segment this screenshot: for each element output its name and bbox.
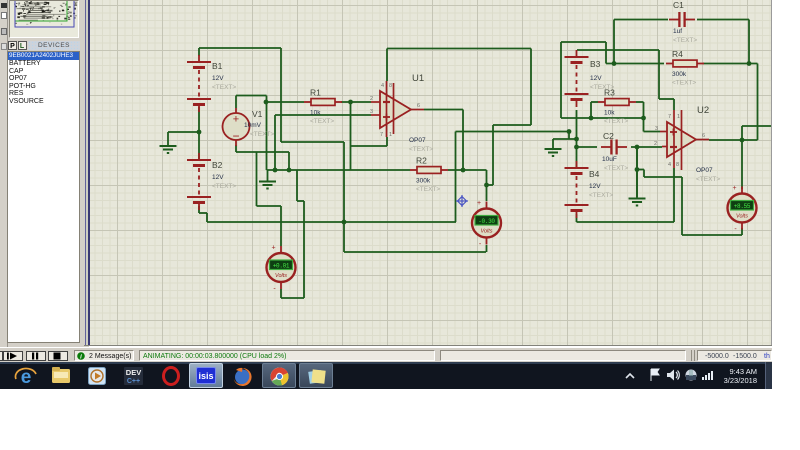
Firefox icon [232, 366, 253, 387]
junction [589, 116, 594, 121]
wire [682, 234, 742, 236]
U2 power rails [660, 110, 709, 170]
svg-text:R2: R2 [416, 156, 427, 166]
U1 pin numbers [370, 83, 420, 138]
schematic canvas grid [89, 0, 771, 345]
svg-text:1uf: 1uf [673, 28, 682, 35]
left toolbar strip [0, 0, 8, 347]
preview green sheet border [15, 0, 67, 21]
svg-text:<TEXT>: <TEXT> [589, 192, 613, 199]
resistor R2 [410, 167, 448, 174]
svg-text:<TEXT>: <TEXT> [250, 131, 274, 138]
resistor R3 [598, 99, 636, 106]
wire [236, 95, 267, 97]
svg-text:<TEXT>: <TEXT> [672, 80, 696, 87]
coordinates [697, 350, 772, 361]
junction [641, 116, 646, 121]
wire to U2 pin3 [644, 131, 661, 133]
junction [612, 61, 617, 66]
junction [635, 145, 640, 150]
svg-text:+: + [477, 200, 481, 207]
svg-text:Volts: Volts [736, 214, 748, 220]
battery B1 [187, 55, 211, 112]
wire [280, 48, 282, 142]
svg-text:4: 4 [668, 162, 671, 168]
svg-text:7: 7 [668, 114, 671, 120]
svg-text:B2: B2 [212, 160, 223, 170]
media player icon [88, 367, 106, 385]
voltmeter M1 [267, 245, 296, 293]
svg-text:Volts: Volts [480, 229, 492, 235]
wire [288, 152, 290, 170]
wire [303, 201, 305, 298]
svg-text:3: 3 [370, 109, 373, 115]
wire cross vertical [455, 132, 457, 223]
svg-text:10k: 10k [310, 110, 321, 117]
junction [348, 100, 353, 105]
wire [644, 176, 682, 178]
junction [461, 168, 466, 173]
folder icon [51, 366, 72, 385]
wire U1 pin3 line [275, 114, 371, 116]
wire [386, 137, 388, 146]
junction [484, 183, 489, 188]
voltage source V1 [223, 108, 250, 146]
wire C1 left [614, 19, 668, 21]
notes button [299, 363, 333, 388]
ISIS app button (active) [189, 363, 223, 388]
svg-text:R4: R4 [672, 49, 683, 59]
svg-text:12V: 12V [212, 174, 224, 181]
svg-text:+: + [233, 114, 239, 126]
junction [342, 220, 347, 225]
junction [574, 137, 579, 142]
svg-text:4: 4 [381, 83, 384, 89]
wire [591, 101, 598, 103]
U1 power rails [371, 81, 424, 137]
svg-text:<TEXT>: <TEXT> [673, 37, 697, 44]
wire B4- rail [577, 221, 675, 223]
svg-text:12V: 12V [589, 183, 601, 190]
battery B4 [565, 161, 589, 218]
wire [296, 170, 298, 201]
wire [487, 184, 494, 186]
wire U2 out [709, 139, 758, 141]
svg-text:+0.01: +0.01 [273, 263, 290, 270]
schematic drawing [88, 0, 771, 346]
svg-text:3: 3 [655, 126, 658, 132]
svg-text:<TEXT>: <TEXT> [604, 165, 628, 172]
svg-text:<TEXT>: <TEXT> [416, 186, 440, 193]
junction [740, 138, 745, 143]
wire to meter2 minus [344, 251, 486, 253]
svg-text:U2: U2 [697, 105, 709, 116]
svg-text:8: 8 [676, 162, 679, 168]
wire B1+ rail [199, 47, 281, 49]
wire B2 bottom [198, 206, 200, 213]
step button [3, 351, 23, 361]
IE icon [14, 366, 38, 386]
wire [741, 126, 743, 140]
status bar [0, 347, 772, 362]
svg-text:B1: B1 [212, 61, 223, 71]
ground GND3 stage2 left [545, 139, 562, 156]
wire to R1 [267, 101, 305, 103]
system tray [624, 370, 636, 382]
wire V1+ up [235, 96, 237, 109]
wire feedback down [757, 64, 759, 141]
wire R3 bottom rail [561, 117, 644, 119]
wire B1 top [198, 48, 200, 56]
svg-text:10mV: 10mV [244, 122, 262, 129]
svg-text:+: + [732, 185, 736, 192]
wire C1 left drop [613, 20, 615, 64]
wire [568, 132, 570, 140]
svg-text:U1: U1 [412, 73, 424, 84]
wire [206, 213, 208, 222]
wire [343, 142, 345, 252]
ground GND2 below V1 [259, 170, 276, 189]
ground GND1 [160, 132, 177, 153]
svg-text:+8.55: +8.55 [734, 203, 751, 210]
wire R4 right [703, 63, 758, 65]
svg-text:Volts: Volts [275, 273, 287, 279]
wire meter1 minus [280, 289, 282, 298]
wire C2 to pin2 [631, 146, 662, 148]
wire R2 right [448, 169, 487, 171]
svg-text:300k: 300k [416, 178, 431, 185]
wire to U1 Vminus rail [351, 145, 388, 147]
svg-text:<TEXT>: <TEXT> [696, 176, 720, 183]
taskbar [0, 362, 772, 389]
wire [297, 200, 304, 202]
wire [493, 124, 531, 126]
origin marker [456, 195, 468, 207]
svg-text:−: − [232, 129, 239, 143]
wire feedback down [350, 102, 352, 170]
svg-text:1: 1 [389, 132, 392, 138]
svg-text:C2: C2 [603, 131, 614, 141]
svg-text:12V: 12V [590, 75, 602, 82]
preview schematic thumbnail [34, 3, 36, 6]
svg-text:-: - [734, 226, 737, 233]
wire R3 left drop [590, 102, 592, 118]
wire U1 out [424, 109, 463, 111]
wire U2 V- drop [673, 168, 675, 222]
svg-text:2: 2 [654, 141, 657, 147]
wire V1- down [235, 145, 237, 152]
svg-text:OP07: OP07 [696, 167, 713, 174]
wire B3+ rail [577, 49, 659, 51]
svg-text:R1: R1 [310, 88, 321, 98]
play button (cut) [0, 351, 3, 361]
svg-text:12V: 12V [212, 75, 224, 82]
junction [567, 129, 572, 134]
capacitor C1 symbol [669, 12, 695, 27]
svg-text:<TEXT>: <TEXT> [409, 146, 433, 153]
wire to ground [636, 147, 638, 197]
svg-text:C++: C++ [127, 378, 140, 385]
svg-text:2: 2 [370, 96, 373, 102]
wire [553, 138, 577, 140]
pause button [26, 351, 46, 361]
wire left box [560, 42, 562, 118]
wire [748, 20, 750, 64]
wire C1 right [697, 19, 749, 21]
battery B3 [565, 50, 589, 107]
svg-text:<TEXT>: <TEXT> [310, 118, 334, 125]
junction [747, 61, 752, 66]
ground GND4 stage2 mid [629, 147, 646, 206]
wire [257, 205, 282, 207]
svg-text:1: 1 [677, 114, 680, 120]
wire B4 bottom [576, 214, 578, 222]
svg-text:OP07: OP07 [409, 137, 426, 144]
wire B1- to B2+ [198, 107, 200, 161]
wire to meter3 [741, 140, 743, 189]
op-amp U1 [380, 91, 411, 128]
svg-text:V1: V1 [252, 109, 263, 119]
resistor R4 [666, 60, 704, 67]
wire [561, 41, 606, 43]
svg-text:7: 7 [380, 132, 383, 138]
svg-text:B4: B4 [589, 169, 600, 179]
wire [643, 102, 645, 132]
op-amp U2 [667, 122, 696, 157]
wire [658, 50, 660, 99]
wire node row [267, 169, 411, 171]
Opera icon [161, 366, 181, 386]
junction [197, 130, 202, 135]
junction [287, 168, 292, 173]
junction [273, 168, 278, 173]
wire [637, 169, 644, 171]
wire long B2- rail [207, 221, 456, 223]
wire U1 V+ drop [386, 49, 388, 82]
svg-text:<TEXT>: <TEXT> [212, 183, 236, 190]
wire to meter1 [280, 206, 282, 246]
svg-text:<TEXT>: <TEXT> [604, 118, 628, 125]
wire mid rail [456, 131, 570, 133]
wire U1 supply top rail [387, 48, 531, 50]
Dev-C++ icon [124, 367, 143, 385]
U2 pin numbers [654, 114, 705, 168]
svg-text:-0.30: -0.30 [478, 218, 495, 225]
wire U2 V+ drop [673, 99, 675, 110]
junction [264, 100, 269, 105]
message area [74, 350, 134, 361]
wire [492, 125, 494, 185]
wire pin3 drop [274, 115, 276, 170]
wire to ground [168, 131, 199, 133]
P / L buttons and DEVICES header [7, 41, 80, 51]
voltmeter M3 [728, 185, 757, 233]
battery B2 [187, 153, 211, 210]
junction [635, 167, 640, 172]
device list [7, 51, 80, 343]
svg-text:R3: R3 [604, 88, 615, 98]
preview blue view border [15, 0, 74, 27]
svg-text:300k: 300k [672, 71, 687, 78]
wire meter1 plus path [256, 152, 258, 206]
svg-text:-: - [273, 286, 276, 293]
wire [281, 297, 304, 299]
wire R2 to meter2 [486, 170, 488, 201]
Chrome button [262, 363, 296, 388]
svg-text:-: - [479, 241, 482, 248]
wire [681, 177, 683, 235]
wire meter2 minus [486, 245, 488, 252]
page position box [440, 350, 686, 361]
overview / preview window [9, 0, 79, 38]
wire R3 right [636, 101, 644, 103]
wire R1 to U1 pin2 [341, 101, 371, 103]
wire U1 out down [462, 110, 464, 171]
wire [605, 42, 607, 64]
svg-text:10k: 10k [604, 110, 615, 117]
wire to C2 [577, 146, 598, 148]
wire [281, 141, 344, 143]
animating status [139, 350, 435, 361]
svg-text:8: 8 [389, 83, 392, 89]
wire B3- to B4+ [576, 110, 578, 169]
voltmeter M2 [472, 200, 501, 248]
wire [530, 49, 532, 126]
wire down to node [266, 96, 268, 171]
wire to edge [742, 125, 771, 127]
svg-text:6: 6 [417, 103, 420, 109]
junction [574, 145, 579, 150]
svg-text:10uF: 10uF [602, 156, 617, 163]
capacitor C2 symbol [601, 140, 627, 155]
wire meter3 minus [741, 228, 743, 235]
wire [643, 170, 645, 178]
svg-text:6: 6 [702, 133, 705, 139]
svg-text:DEV: DEV [126, 368, 141, 377]
resistor R1 [304, 99, 342, 106]
svg-text:C1: C1 [673, 0, 684, 10]
wire [199, 212, 207, 214]
wire R4 left rail [606, 63, 664, 65]
svg-text:<TEXT>: <TEXT> [212, 84, 236, 91]
svg-text:+: + [271, 245, 275, 252]
wire [236, 151, 289, 153]
stop button [48, 351, 68, 361]
wire [659, 98, 674, 100]
svg-text:B3: B3 [590, 59, 601, 69]
